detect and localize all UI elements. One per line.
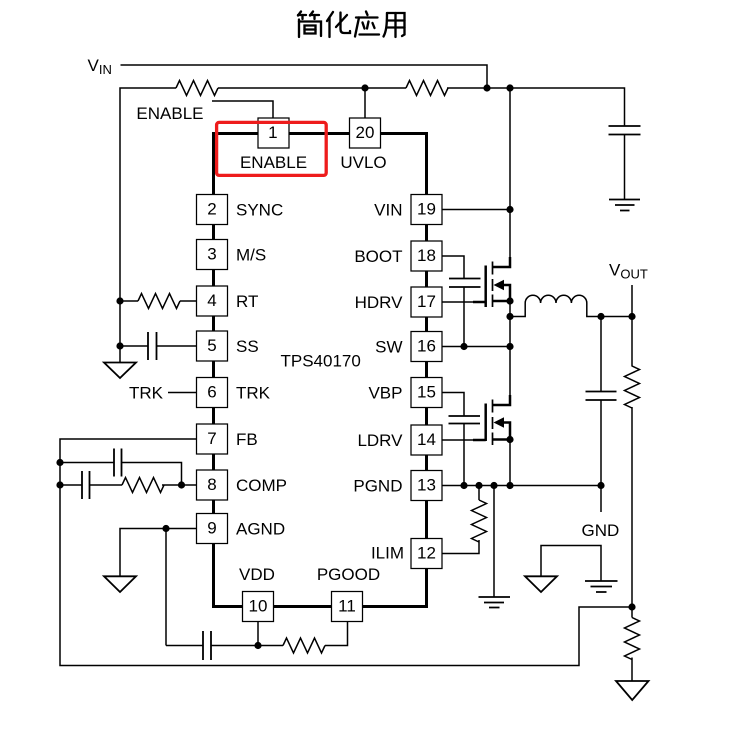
- svg-text:PGOOD: PGOOD: [317, 565, 380, 584]
- svg-text:1: 1: [268, 123, 277, 142]
- svg-text:15: 15: [417, 383, 436, 402]
- svg-text:10: 10: [249, 597, 268, 616]
- svg-text:RT: RT: [236, 292, 258, 311]
- svg-text:SYNC: SYNC: [236, 201, 283, 220]
- svg-text:GND: GND: [582, 521, 620, 540]
- svg-text:SW: SW: [375, 338, 402, 357]
- svg-text:LDRV: LDRV: [357, 431, 403, 450]
- svg-text:5: 5: [207, 336, 216, 355]
- svg-text:4: 4: [207, 291, 216, 310]
- svg-text:11: 11: [338, 597, 356, 616]
- svg-text:19: 19: [417, 200, 436, 219]
- svg-text:VDD: VDD: [239, 565, 275, 584]
- svg-text:TRK: TRK: [236, 384, 271, 403]
- svg-text:ILIM: ILIM: [371, 544, 404, 563]
- svg-text:VIN: VIN: [374, 201, 402, 220]
- svg-text:3: 3: [207, 245, 216, 264]
- svg-text:COMP: COMP: [236, 476, 287, 495]
- svg-text:2: 2: [207, 200, 216, 219]
- svg-text:FB: FB: [236, 430, 258, 449]
- svg-text:TRK: TRK: [129, 384, 164, 403]
- svg-text:UVLO: UVLO: [340, 153, 386, 172]
- svg-text:PGND: PGND: [353, 477, 402, 496]
- svg-text:HDRV: HDRV: [355, 293, 404, 312]
- svg-text:13: 13: [417, 476, 436, 495]
- svg-text:BOOT: BOOT: [354, 247, 402, 266]
- svg-text:TPS40170: TPS40170: [281, 352, 361, 371]
- svg-text:17: 17: [417, 292, 436, 311]
- svg-text:M/S: M/S: [236, 246, 266, 265]
- svg-text:12: 12: [417, 544, 436, 563]
- svg-text:18: 18: [417, 246, 436, 265]
- svg-text:20: 20: [356, 123, 375, 142]
- svg-text:6: 6: [207, 383, 216, 402]
- svg-text:SS: SS: [236, 337, 259, 356]
- svg-text:7: 7: [207, 429, 216, 448]
- svg-text:8: 8: [207, 475, 216, 494]
- svg-text:ENABLE: ENABLE: [240, 153, 307, 172]
- svg-text:14: 14: [417, 430, 436, 449]
- svg-text:VBP: VBP: [368, 384, 402, 403]
- svg-text:ENABLE: ENABLE: [136, 104, 203, 123]
- svg-text:16: 16: [417, 337, 436, 356]
- svg-text:AGND: AGND: [236, 520, 285, 539]
- svg-text:9: 9: [207, 519, 216, 538]
